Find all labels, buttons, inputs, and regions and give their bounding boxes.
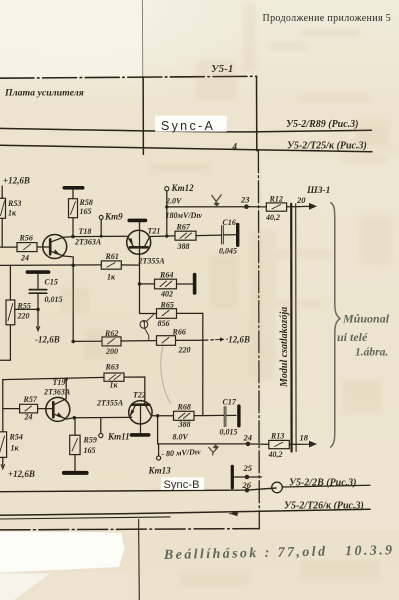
wire R59 to ground	[74, 455, 76, 471]
wire R55 bottom L-bend	[0, 325, 10, 361]
pin 18 arrow	[302, 443, 311, 445]
wire T22 collector down to KT13 row	[157, 416, 159, 444]
svg-text:165: 165	[84, 446, 96, 455]
wire Sync-A line to У5-2/R89	[0, 128, 372, 131]
wire to R62	[73, 340, 102, 342]
svg-text:R57: R57	[23, 395, 38, 404]
wire T21 base down to R64/R65	[139, 247, 141, 313]
svg-text:2Т355А: 2Т355А	[138, 257, 166, 266]
resistor R56	[17, 243, 37, 252]
svg-text:Плата усилителя: Плата усилителя	[4, 88, 84, 99]
svg-text:Т21: Т21	[148, 227, 161, 236]
svg-text:У5-2/Т26/к (Рис.3): У5-2/Т26/к (Рис.3)	[284, 501, 364, 512]
brace	[330, 203, 340, 448]
chassis bar right of R64	[193, 275, 197, 293]
svg-text:26: 26	[242, 480, 252, 490]
junction R58/collector	[71, 235, 75, 239]
svg-text:Sync-A: Sync-A	[161, 119, 215, 133]
resistor R59	[70, 435, 80, 454]
svg-text:Кт13: Кт13	[148, 466, 172, 476]
svg-text:Můuonal: Můuonal	[342, 312, 390, 326]
svg-text:0,045: 0,045	[219, 247, 237, 256]
wire T21 collector to R67	[150, 235, 175, 238]
wire node 23 to R12	[249, 206, 267, 208]
svg-text:У5-2/R89 (Рис.3): У5-2/R89 (Рис.3)	[286, 119, 359, 130]
svg-text:R54: R54	[9, 433, 23, 442]
wire R64 to chassis bar	[177, 283, 194, 285]
svg-text:Ш3-1: Ш3-1	[306, 186, 330, 196]
bottom-left lighter page edge	[0, 573, 133, 600]
svg-text:R61: R61	[105, 252, 119, 261]
+12,6V supply top tick	[1, 186, 3, 198]
wire to R64	[140, 283, 155, 285]
transistor T22	[129, 401, 152, 434]
wire to R65	[140, 313, 157, 315]
resistor R12	[266, 203, 286, 211]
svg-text:388: 388	[177, 242, 190, 251]
chassis bar below T22	[131, 433, 148, 437]
wire from connector circle to У5-2/2В	[282, 485, 370, 487]
wire R12 to connector pin 20	[287, 206, 301, 208]
resistor R63	[104, 373, 124, 381]
svg-text:R12: R12	[269, 195, 283, 204]
direction arrow on Т26 line	[230, 512, 239, 515]
svg-text:1к: 1к	[11, 444, 20, 453]
wire pin 25	[234, 476, 262, 478]
board boundary dash-dot (Плата усилителя / У5-1 top edge)	[0, 76, 257, 78]
svg-text:402: 402	[160, 290, 173, 299]
svg-text:Продолжение приложения 5: Продолжение приложения 5	[263, 13, 392, 24]
resistor R57	[20, 404, 38, 413]
resistor R68	[174, 411, 195, 420]
wire R57 to T19 base	[38, 408, 52, 410]
svg-text:+12,6В: +12,6В	[3, 176, 30, 186]
junction KT12 drop	[165, 234, 168, 237]
junction T22 collector	[156, 414, 160, 418]
svg-text:R64: R64	[159, 271, 173, 280]
node 23	[244, 204, 249, 209]
svg-text:+12,6В: +12,6В	[8, 469, 35, 479]
chassis bar above T21	[129, 219, 145, 223]
connector circle symbol	[272, 482, 283, 493]
resistor R53	[0, 198, 6, 218]
svg-text:180мV/Dιv: 180мV/Dιv	[166, 211, 203, 220]
wire R58 to collector row	[72, 218, 74, 237]
svg-text:R13: R13	[270, 432, 284, 441]
wire line pin 4 to У5-2/Т25/к	[0, 145, 372, 152]
svg-text:С16: С16	[223, 218, 236, 227]
svg-text:388: 388	[178, 420, 191, 429]
svg-text:С15: С15	[45, 278, 58, 287]
label Sync-A	[155, 116, 227, 133]
svg-text:R63: R63	[105, 363, 119, 372]
wire R55 tap to C15 line	[15, 308, 38, 310]
svg-text:2.0V: 2.0V	[165, 197, 182, 206]
svg-text:24: 24	[20, 254, 29, 263]
wire R63 to T22 base	[124, 377, 145, 404]
wire R54 node to R63 row	[3, 377, 104, 379]
paper crease line top	[141, 0, 144, 153]
svg-text:856: 856	[158, 319, 170, 328]
capacitor C16	[222, 224, 238, 245]
wire line to У5-2/Т26/к	[0, 509, 370, 515]
svg-text:1к: 1к	[110, 381, 119, 390]
svg-text:2Т355А: 2Т355А	[96, 399, 124, 408]
section divider vertical bottom	[138, 520, 141, 600]
svg-text:220: 220	[178, 346, 191, 355]
wire R66 to right bus and supply arrow	[176, 339, 203, 341]
wire short second line bottom left	[0, 517, 170, 519]
white-out correction area bottom-left	[0, 532, 125, 573]
svg-text:R53: R53	[7, 199, 21, 208]
svg-text:2Т363А: 2Т363А	[74, 238, 102, 247]
transistor T21	[127, 222, 151, 254]
junction T19 collector	[65, 377, 68, 380]
wire R62 to R66	[121, 340, 157, 342]
svg-text:20: 20	[296, 195, 306, 205]
svg-text:1.ábra.: 1.ábra.	[355, 347, 388, 359]
svg-text:R58: R58	[79, 198, 93, 207]
wire T19 emitter row	[67, 417, 132, 419]
svg-text:2Т363А: 2Т363А	[43, 388, 71, 397]
resistor R54	[0, 432, 7, 458]
svg-text:1к: 1к	[107, 273, 116, 282]
svg-text:R56: R56	[19, 234, 33, 243]
svg-text:У5-2/Т25/к (Рис.3): У5-2/Т25/к (Рис.3)	[287, 141, 367, 152]
svg-text:R55: R55	[17, 302, 31, 311]
wire R56 to T18 base	[37, 246, 49, 248]
coupling bar pins 25/26	[231, 466, 234, 487]
capacitor C17	[224, 406, 239, 427]
svg-text:0,015: 0,015	[220, 428, 238, 437]
svg-text:С17: С17	[223, 398, 237, 407]
wire R59 drop	[74, 418, 76, 435]
Y probe mark bottom	[209, 444, 219, 455]
test point KT13	[157, 444, 161, 460]
svg-text:24: 24	[243, 433, 253, 443]
svg-text:Modul csatlakozója: Modul csatlakozója	[279, 307, 290, 388]
node 24	[246, 442, 251, 447]
wire R53 to base row	[1, 218, 3, 247]
transistor T19	[46, 397, 70, 421]
pencil curve near R68	[161, 346, 171, 404]
svg-text:1к: 1к	[8, 209, 17, 218]
wire left bus vertical	[2, 380, 4, 432]
capacitor C15	[29, 290, 46, 294]
wire C15 to -12,6V	[37, 293, 39, 328]
connector rail right	[295, 204, 297, 452]
svg-text:40,2: 40,2	[268, 450, 283, 459]
node mark 1 circled	[140, 314, 154, 341]
wire chassis to R58	[72, 190, 74, 199]
resistor R55	[6, 300, 15, 325]
resistor R13	[269, 440, 290, 448]
svg-text:40,2: 40,2	[265, 213, 280, 222]
svg-text:R68: R68	[177, 403, 191, 412]
svg-text:У5-2/2В (Рис.3): У5-2/2В (Рис.3)	[289, 478, 357, 489]
right bus vertical	[202, 313, 204, 415]
ground bar under R59	[64, 471, 87, 475]
right margin lighter tone	[262, 155, 399, 530]
wire R67 to C16	[196, 234, 222, 237]
svg-text:Т22: Т22	[133, 391, 146, 400]
svg-text:ui telé: ui telé	[337, 330, 368, 344]
module U5-1 dash-dot right border	[257, 151, 260, 529]
svg-text:23: 23	[240, 195, 250, 205]
wire R55 top to emitter row	[9, 265, 11, 300]
test point KT12	[165, 187, 169, 237]
-12,6V arrow tick	[36, 327, 40, 332]
junction T18 emitter row	[71, 264, 75, 268]
resistor R61	[101, 261, 121, 269]
svg-text:Кт9: Кт9	[104, 212, 123, 222]
wire T18 collector row	[64, 236, 127, 237]
connector rail left	[290, 204, 293, 452]
node 25	[245, 475, 250, 480]
wire T22 collector node	[151, 415, 173, 417]
wire R68 to C17	[194, 414, 224, 416]
junction R64 tap on T21 base line	[138, 282, 142, 286]
module U5-1 box right edge	[256, 76, 258, 151]
svg-text:8.0V: 8.0V	[173, 433, 189, 442]
wire Sync-B line to node 26	[0, 488, 276, 492]
resistor R64	[155, 279, 177, 289]
module U5-1 dash-dot bottom border	[0, 529, 259, 530]
label Sync-B	[161, 477, 204, 491]
junction R62 branch	[71, 340, 75, 344]
test point KT11	[99, 418, 103, 438]
chassis bar above C15	[27, 270, 48, 274]
svg-text:Т18: Т18	[79, 227, 92, 236]
svg-text:·12,6В: ·12,6В	[226, 335, 250, 345]
transistor T18	[43, 235, 67, 259]
svg-text:0,015: 0,015	[45, 295, 63, 304]
wire R54 to +12,6V	[2, 457, 4, 466]
svg-text:165: 165	[80, 207, 92, 216]
wire KT13 row to node 24	[158, 443, 269, 446]
wire base row into R56	[0, 246, 17, 248]
svg-text:18: 18	[300, 433, 309, 443]
wire T18 emitter branch down to R62	[72, 265, 74, 341]
wire R13 to connector pin 18	[289, 443, 301, 445]
svg-text:25: 25	[243, 463, 253, 473]
Y probe mark top	[212, 195, 222, 207]
svg-text:R59: R59	[83, 436, 97, 445]
test point KT9	[99, 215, 103, 237]
wire emitter row y=265	[0, 264, 101, 267]
wire KT12 row to node 23	[167, 206, 247, 208]
svg-text:R67: R67	[176, 223, 191, 232]
wire left bus to R57	[3, 408, 20, 410]
wire T18 emitter to lower row	[64, 256, 74, 265]
junction KT12 line to node 23	[165, 205, 168, 208]
resistor R66	[157, 336, 176, 346]
svg-text:24: 24	[24, 413, 33, 422]
resistor R62	[102, 337, 121, 346]
resistor R58	[69, 199, 78, 218]
module U5-1 box left edge	[142, 77, 144, 155]
svg-text:Кт12: Кт12	[171, 183, 195, 193]
wire T19 collector up	[65, 379, 67, 399]
resistor R65	[157, 309, 177, 319]
svg-text:R65: R65	[160, 301, 174, 310]
wire R65 to right bus	[177, 312, 203, 314]
svg-text:220: 220	[17, 312, 30, 321]
pin 20 arrow to Ш3-1	[302, 205, 311, 207]
svg-text:R66: R66	[172, 328, 186, 337]
resistor R67	[175, 231, 196, 240]
junction R55 tap	[36, 308, 40, 312]
svg-text:-12,6В: -12,6В	[35, 335, 60, 345]
chassis bar above R58	[64, 186, 82, 190]
wire chassis to C15	[37, 274, 39, 289]
svg-text:4: 4	[232, 142, 238, 152]
junction T19 emitter node	[73, 416, 77, 420]
node 26	[245, 488, 250, 493]
svg-text:Т19: Т19	[53, 378, 66, 387]
svg-text:Кт11: Кт11	[107, 432, 130, 442]
wire R61 to T21 base line	[121, 264, 139, 266]
svg-text:Sync-B: Sync-B	[164, 479, 200, 491]
